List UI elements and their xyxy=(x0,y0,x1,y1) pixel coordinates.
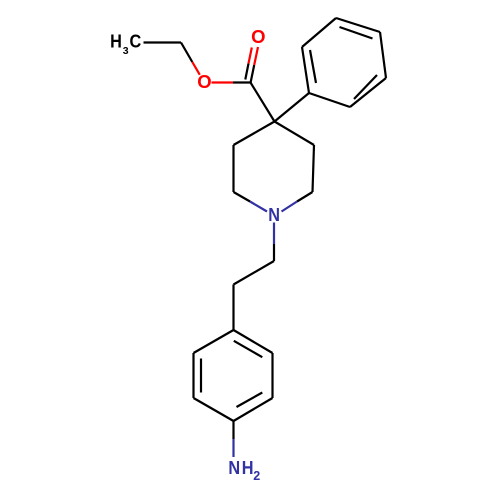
svg-text:C: C xyxy=(130,31,142,52)
svg-text:N: N xyxy=(228,457,240,478)
svg-text:H: H xyxy=(242,457,254,478)
svg-text:N: N xyxy=(268,204,280,225)
svg-text:3: 3 xyxy=(123,45,129,57)
svg-text:O: O xyxy=(197,71,211,92)
svg-text:H: H xyxy=(110,31,122,52)
svg-text:O: O xyxy=(251,26,265,47)
svg-text:2: 2 xyxy=(253,469,260,483)
